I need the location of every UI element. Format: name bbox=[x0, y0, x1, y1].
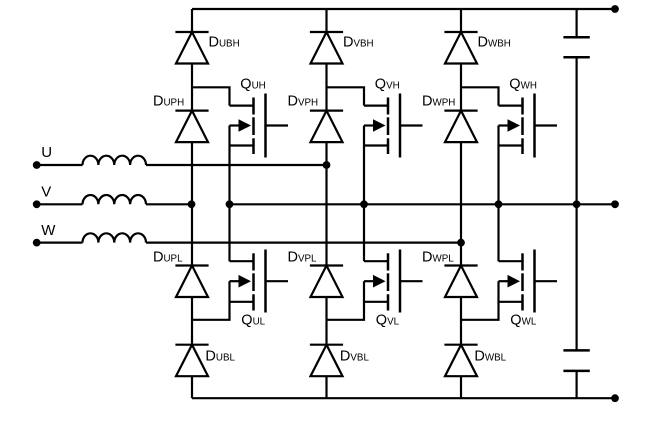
diode DVBH bbox=[310, 32, 343, 64]
wire DWBH to DWPH (with tap) bbox=[460, 64, 462, 111]
wire QVL drain from neutral bus bbox=[363, 204, 365, 261]
wire W terminal to inductor bbox=[37, 242, 83, 244]
diode DUPH bbox=[175, 111, 208, 143]
wire W-leg pole (DWPH to DWPL) bbox=[460, 142, 462, 265]
wire V-leg pole (DVPH to DVPL) bbox=[325, 142, 327, 265]
wire DUBH to DUPH (with tap) bbox=[191, 64, 193, 111]
wire capacitor C1 to neutral bus bbox=[575, 57, 577, 350]
wire QUH drain to diode junction bbox=[192, 87, 230, 105]
wire DUBL to bottom rail bbox=[191, 376, 193, 398]
wire W-leg top rail to DWBH bbox=[460, 9, 462, 32]
svg-text:U: U bbox=[41, 144, 52, 161]
wire DVBH to DVPH (with tap) bbox=[325, 64, 327, 111]
junction W phase on W-leg pole bbox=[457, 239, 465, 247]
inductor LU (boost inductor, phase U) bbox=[83, 156, 147, 165]
wire QWH source to neutral bus bbox=[497, 126, 499, 205]
diode DUBH bbox=[175, 32, 208, 64]
wire QVL source to diode junction bbox=[327, 281, 365, 320]
node capacitor midpoint junction bbox=[573, 200, 581, 208]
wire W phase to W-leg pole bbox=[146, 242, 461, 244]
wire QWH drain to diode junction bbox=[461, 87, 499, 105]
junction V phase on U-leg pole bbox=[188, 200, 196, 208]
junction U phase on V-leg pole bbox=[323, 161, 331, 169]
node U (phase input terminal) bbox=[33, 161, 41, 169]
transistor QVL (lower MOSFET) bbox=[364, 250, 423, 313]
junction QVH source / QVL drain on neutral bus bbox=[360, 200, 368, 208]
wire DWPL to DWBL (with tap) bbox=[460, 297, 462, 345]
wire QVH source to neutral bus bbox=[363, 126, 365, 205]
node DC+ terminal bbox=[611, 5, 619, 13]
transistor QVH (upper MOSFET) bbox=[364, 94, 423, 158]
wire QWL drain from neutral bus bbox=[497, 204, 499, 261]
capacitor C1 (upper DC-link cap) bbox=[563, 37, 589, 57]
diode DWPH bbox=[444, 111, 477, 143]
diode DWBH bbox=[444, 32, 477, 64]
wire V terminal to inductor bbox=[37, 203, 83, 205]
wire DUPL to DUBL (with tap) bbox=[191, 297, 193, 345]
junction QWH source / QWL drain on neutral bus bbox=[495, 200, 503, 208]
inductor LV (boost inductor, phase V) bbox=[83, 195, 147, 204]
diode DWBL bbox=[444, 345, 477, 377]
node neutral terminal bbox=[611, 200, 619, 208]
wire QVH drain to diode junction bbox=[327, 87, 365, 105]
wire neutral midpoint bus bbox=[230, 203, 616, 205]
diode DVBL bbox=[310, 345, 343, 377]
node W (phase input terminal) bbox=[33, 239, 41, 247]
wire bottom rail (DC- bus) bbox=[192, 397, 615, 399]
wire U-leg top rail to DUBH bbox=[191, 9, 193, 32]
svg-text:W: W bbox=[41, 222, 56, 239]
diode DVPH bbox=[310, 111, 343, 143]
wire capacitor branch upper bbox=[575, 9, 577, 37]
diode DWPL bbox=[444, 266, 477, 298]
wire V phase to U-leg pole bbox=[146, 203, 192, 205]
diode DUBL bbox=[175, 345, 208, 377]
wire DVBL to bottom rail bbox=[325, 376, 327, 398]
inductor LW (boost inductor, phase W) bbox=[83, 233, 147, 242]
wire top rail (DC+ bus) bbox=[192, 8, 615, 10]
node V (phase input terminal) bbox=[33, 200, 41, 208]
diode DUPL bbox=[175, 266, 208, 298]
wire U phase to V-leg pole bbox=[146, 164, 327, 166]
wire DVPL to DVBL (with tap) bbox=[325, 297, 327, 345]
wire QUL drain from neutral bus bbox=[228, 204, 230, 261]
transistor QWL (lower MOSFET) bbox=[499, 250, 558, 313]
wire V-leg top rail to DVBH bbox=[325, 9, 327, 32]
diode DVPL bbox=[310, 266, 343, 298]
junction QUH source / QUL drain on neutral bus bbox=[226, 200, 234, 208]
wire capacitor branch lower bbox=[575, 371, 577, 398]
capacitor C2 (lower DC-link cap) bbox=[563, 350, 589, 371]
wire U terminal to inductor bbox=[37, 164, 83, 166]
node DC- terminal bbox=[611, 394, 619, 402]
wire QUH source to neutral bus bbox=[228, 126, 230, 205]
wire QUL source to diode junction bbox=[192, 281, 230, 320]
wire U-leg pole (DUPH to DUPL) bbox=[191, 142, 193, 265]
svg-text:V: V bbox=[41, 184, 51, 201]
transistor QWH (upper MOSFET) bbox=[499, 94, 558, 158]
transistor QUH (upper MOSFET) bbox=[230, 94, 289, 158]
wire QWL source to diode junction bbox=[461, 281, 499, 320]
wire DWBL to bottom rail bbox=[460, 376, 462, 398]
transistor QUL (lower MOSFET) bbox=[230, 250, 289, 313]
